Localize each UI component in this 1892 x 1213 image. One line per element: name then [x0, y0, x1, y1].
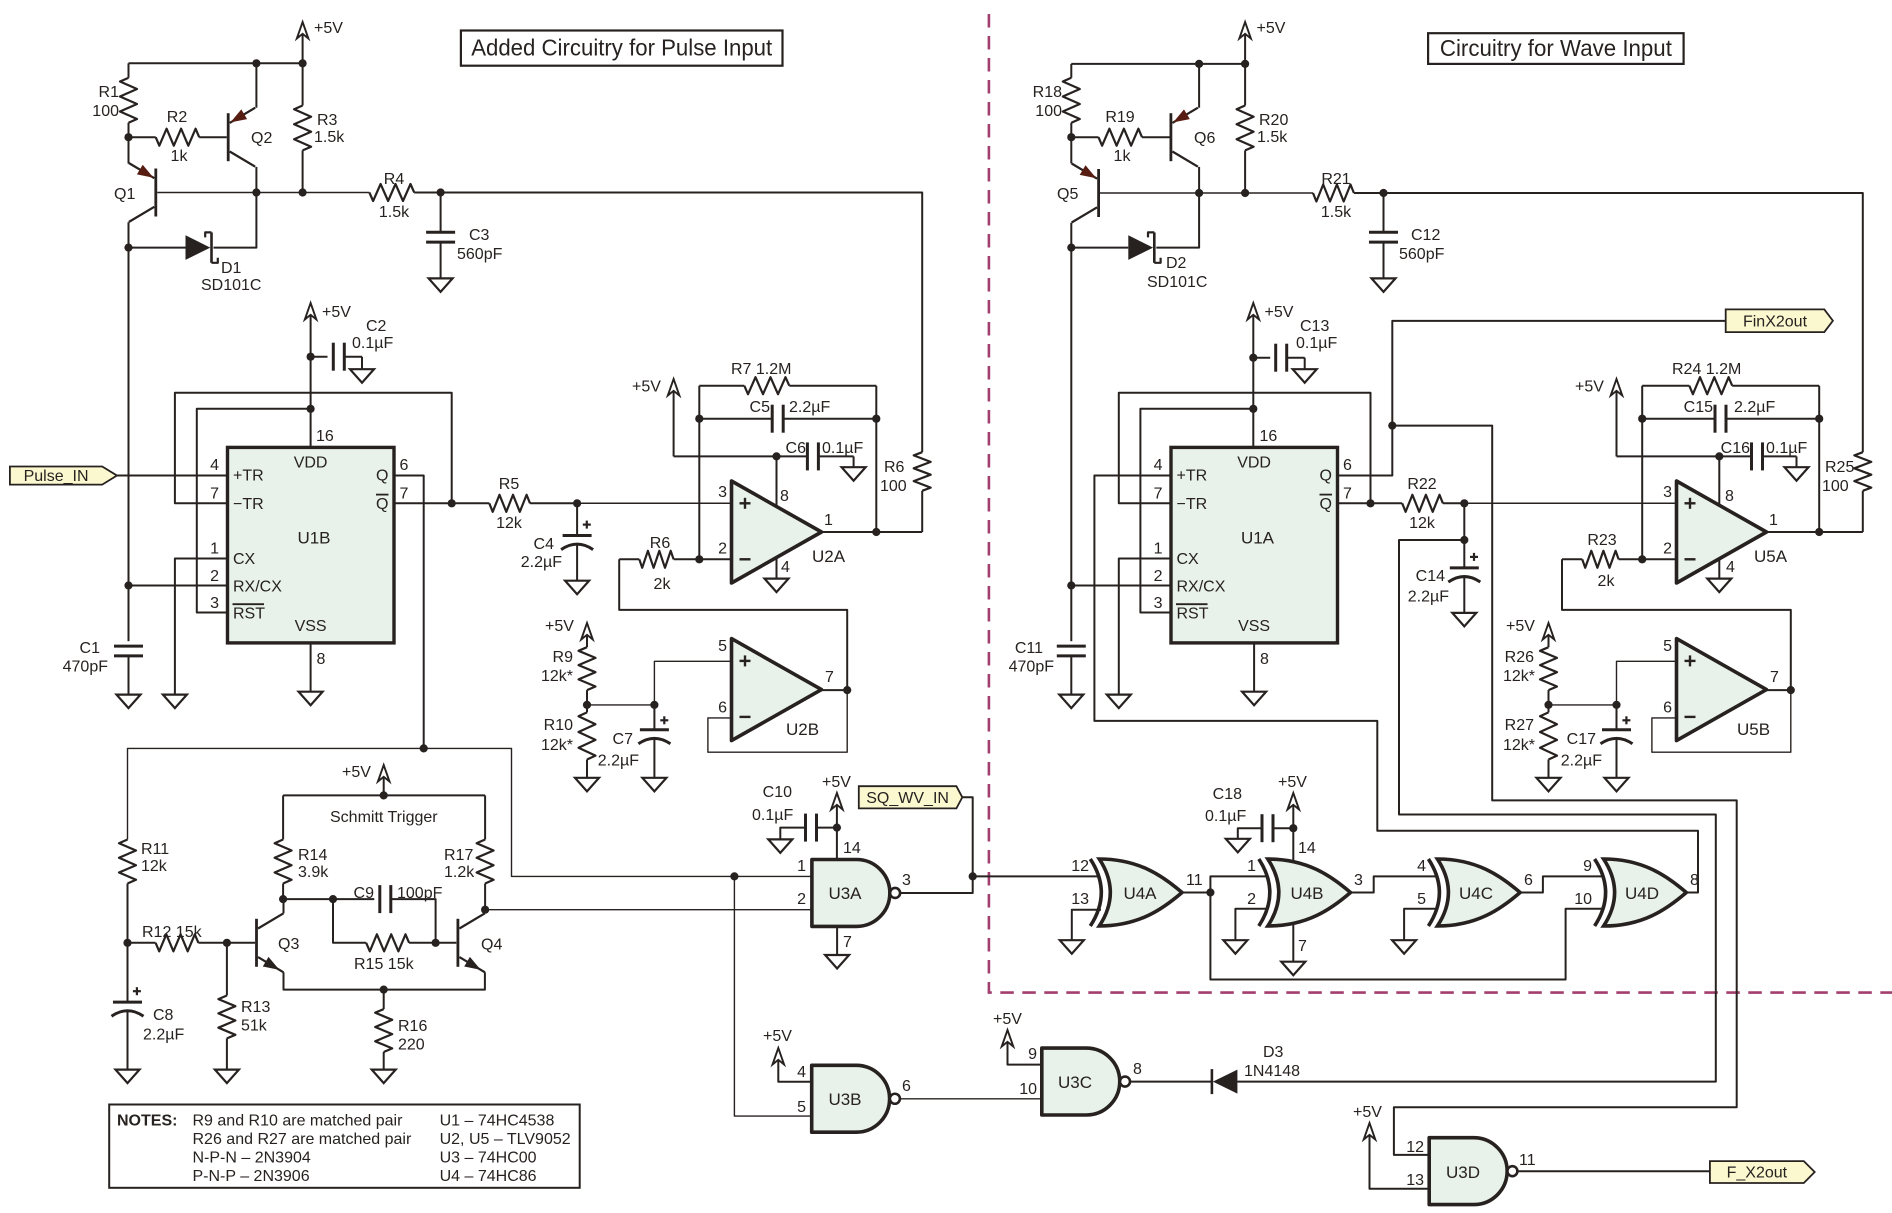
svg-text:6: 6	[400, 457, 409, 474]
wire: U3D pin 13 to +5V	[1370, 1137, 1430, 1189]
svg-text:R23: R23	[1587, 532, 1616, 549]
node: pin8 junction U5A	[1715, 452, 1723, 460]
resistor R7 1.2M feedback	[699, 385, 744, 387]
resistor R6 2k to U2A inverting input	[619, 558, 639, 560]
svg-text:R11: R11	[141, 841, 169, 858]
svg-text:N-P-N – 2N3904: N-P-N – 2N3904	[193, 1150, 311, 1167]
svg-text:R20: R20	[1259, 112, 1288, 129]
ground below R16	[372, 1070, 396, 1084]
svg-text:7: 7	[825, 669, 834, 686]
ground at C6	[842, 467, 866, 481]
svg-text:R2: R2	[167, 109, 188, 126]
node: Q2 emitter to +5V rail	[252, 59, 260, 67]
capacitor C15 2.2uF	[1642, 418, 1715, 420]
svg-text:VDD: VDD	[294, 455, 328, 472]
svg-text:100: 100	[92, 103, 119, 120]
svg-text:C16: C16	[1721, 440, 1750, 457]
wire: Q pin 6 jog to FinX2out junction	[1338, 426, 1393, 476]
wire: U2A pin 8 stub	[776, 456, 778, 507]
svg-text:0.1µF: 0.1µF	[352, 335, 393, 352]
svg-text:U3D: U3D	[1446, 1163, 1480, 1182]
svg-text:1: 1	[1769, 512, 1778, 529]
svg-text:1.5k: 1.5k	[314, 129, 345, 146]
node: U4A output junction	[1206, 888, 1214, 896]
svg-text:11: 11	[1186, 872, 1203, 889]
svg-text:+5V: +5V	[342, 764, 371, 781]
svg-text:470pF: 470pF	[1009, 659, 1055, 676]
node: R20 bottom on rail	[1241, 189, 1249, 197]
op-amp U2A	[732, 481, 822, 583]
node: R18 bottom / R19 / Q5 emitter	[1067, 133, 1075, 141]
svg-text:3: 3	[210, 595, 219, 612]
svg-text:1: 1	[824, 512, 833, 529]
svg-text:9: 9	[1028, 1046, 1037, 1063]
capacitor C12 560pF	[1383, 193, 1385, 232]
capacitor C3 560pF	[440, 193, 442, 233]
svg-text:6: 6	[718, 700, 727, 717]
resistor R17 1.2k	[477, 840, 494, 884]
wire: Schmitt +5V rail	[283, 794, 485, 796]
node: U2B output junction	[843, 686, 851, 694]
svg-text:R10: R10	[544, 717, 573, 734]
svg-text:+5V: +5V	[1506, 618, 1535, 635]
svg-text:3: 3	[718, 484, 727, 501]
node: R16 on emitter rail	[380, 986, 388, 994]
ground at U4C pin 5	[1392, 940, 1416, 954]
wire: D2 anode	[1071, 247, 1128, 249]
ground at C13	[1293, 369, 1317, 383]
svg-text:U4C: U4C	[1459, 884, 1493, 903]
svg-text:2: 2	[1154, 568, 1163, 585]
svg-text:R19: R19	[1105, 109, 1134, 126]
nand gate U3D	[1429, 1138, 1507, 1205]
svg-text:U1 – 74HC4538: U1 – 74HC4538	[440, 1113, 555, 1130]
notes box	[109, 1105, 580, 1188]
wire: R6-2k to U2B output loop	[619, 559, 847, 690]
node: FinX2out junction	[1388, 422, 1396, 430]
wire: long vertical Q5 emitter to RX/CX	[1070, 248, 1072, 586]
svg-text:100: 100	[1822, 478, 1849, 495]
svg-text:CX: CX	[233, 551, 256, 568]
svg-text:Q: Q	[376, 468, 388, 485]
wire: U5A pin 8 stub	[1718, 456, 1720, 507]
resistor R2	[129, 136, 156, 138]
diode D3 1N4148	[1211, 1069, 1214, 1094]
svg-text:8: 8	[1133, 1061, 1142, 1078]
svg-text:C17: C17	[1567, 731, 1596, 748]
node: R12 / Q3 base / R13	[223, 939, 231, 947]
svg-text:SQ_WV_IN: SQ_WV_IN	[866, 790, 949, 807]
wire: U2B output	[822, 689, 848, 691]
node: +5V on Schmitt rail	[380, 791, 388, 799]
svg-text:R12 15k: R12 15k	[142, 924, 203, 941]
svg-text:+5V: +5V	[822, 774, 851, 791]
svg-text:U3C: U3C	[1058, 1073, 1092, 1092]
svg-text:C13: C13	[1300, 318, 1329, 335]
op-amp U5B	[1677, 639, 1767, 741]
xor gate U4A	[1099, 859, 1182, 926]
svg-text:Q2: Q2	[251, 130, 272, 147]
svg-text:U4B: U4B	[1290, 884, 1323, 903]
wire: base rail Q5-Q6-R20-R21	[1100, 192, 1313, 194]
node: C5 right junction	[872, 415, 880, 423]
ground at CX	[163, 695, 187, 709]
svg-text:R9 and R10 are matched pair: R9 and R10 are matched pair	[193, 1113, 404, 1130]
svg-text:14: 14	[1298, 840, 1316, 857]
svg-text:U1A: U1A	[1241, 529, 1275, 548]
svg-text:Q: Q	[1320, 496, 1332, 513]
svg-text:5: 5	[718, 638, 727, 655]
wire: U3A pin 7 stub	[836, 926, 838, 955]
svg-text:1k: 1k	[171, 148, 189, 165]
svg-text:C1: C1	[80, 640, 101, 657]
svg-text:+TR: +TR	[233, 468, 264, 485]
svg-text:+5V: +5V	[322, 304, 351, 321]
svg-text:+5V: +5V	[1278, 774, 1307, 791]
resistor R4	[369, 184, 414, 201]
node: C2 junction on VDD line	[307, 353, 315, 361]
wire: VSS pin 8 stub	[310, 643, 312, 692]
svg-text:C4: C4	[534, 536, 555, 553]
node: R15 / C9 / Q4 base	[432, 939, 440, 947]
wire: node to Q5 emitter	[1070, 137, 1072, 163]
wire: U4A out crossover to U4D pin 10	[1210, 893, 1602, 980]
capacitor C2 0.1uF	[311, 356, 328, 358]
+5V symbol at U3D	[1364, 1123, 1376, 1140]
wire: U2A output	[822, 531, 923, 533]
transistor Q2 (PNP)	[227, 113, 230, 161]
svg-text:0.1µF: 0.1µF	[1766, 440, 1807, 457]
svg-text:R3: R3	[317, 112, 338, 129]
resistor R9 12k*	[579, 647, 596, 690]
svg-text:+5V: +5V	[763, 1028, 792, 1045]
ground below C3	[429, 278, 453, 292]
svg-text:3: 3	[1154, 595, 1163, 612]
svg-text:RX/CX: RX/CX	[233, 579, 282, 596]
svg-text:C6: C6	[786, 440, 807, 457]
svg-text:R14: R14	[298, 847, 327, 864]
transistor Q6 (PNP)	[1170, 113, 1173, 161]
svg-text:RX/CX: RX/CX	[1177, 579, 1226, 596]
svg-text:C12: C12	[1411, 227, 1440, 244]
svg-text:4: 4	[210, 457, 219, 474]
node: C9 left / R15 branch	[329, 895, 337, 903]
svg-text:2: 2	[210, 568, 219, 585]
wire: U3A output to SQ_WV_IN and U4A	[900, 876, 973, 893]
resistor R3	[302, 63, 304, 105]
svg-text:R16: R16	[398, 1018, 427, 1035]
node: C15 left junction	[1638, 415, 1646, 423]
node: C15 right junction	[1815, 415, 1823, 423]
svg-text:0.1µF: 0.1µF	[1205, 808, 1246, 825]
resistor R21 1.5k	[1313, 185, 1354, 202]
svg-text:6: 6	[1524, 872, 1533, 889]
resistor R11 12k	[119, 840, 136, 884]
wire: C9 right down to R15/Q4 node	[391, 899, 436, 943]
xor gate U4D	[1604, 859, 1687, 926]
ground at U3A pin 7	[825, 955, 849, 969]
node: R26/R27 junction	[1544, 701, 1552, 709]
xor gate U4B	[1268, 859, 1351, 926]
wire: RST tie-high loop U1A	[1140, 409, 1253, 613]
svg-text:+5V: +5V	[1265, 304, 1294, 321]
svg-text:U2A: U2A	[812, 547, 846, 566]
capacitor C14 2.2uF (polarized)	[1463, 540, 1465, 568]
svg-text:5: 5	[1663, 638, 1672, 655]
node: RST loop junction on VDD line U1A	[1249, 405, 1257, 413]
svg-text:U3B: U3B	[828, 1090, 861, 1109]
node: SQ_WV_IN junction	[969, 872, 977, 880]
svg-text:R15 15k: R15 15k	[354, 956, 415, 973]
resistor R16 220	[383, 990, 385, 1010]
transistor Q3 (NPN)	[255, 919, 258, 967]
node: Q4 collector output	[481, 906, 489, 914]
svg-text:Q: Q	[376, 496, 388, 513]
svg-text:R4: R4	[384, 171, 405, 188]
svg-text:100: 100	[1035, 103, 1062, 120]
ground at U4B pin 2	[1223, 940, 1247, 954]
resistor R26 12k*	[1540, 647, 1557, 690]
wire: U3D output to F_X2out	[1517, 1170, 1710, 1172]
wire: Q6 collector down to rail	[1198, 167, 1200, 193]
ground below C17	[1605, 778, 1629, 792]
wire: +5V rail to U5A pin 8 and C16	[1617, 455, 1752, 457]
svg-text:16: 16	[1260, 428, 1278, 445]
svg-text:C7: C7	[613, 731, 634, 748]
svg-text:8: 8	[780, 488, 789, 505]
wire: C9 link from Q3 collector node	[283, 898, 374, 900]
wire: U4A pin 13 to ground	[1072, 910, 1101, 940]
svg-text:R27: R27	[1505, 717, 1534, 734]
svg-text:7: 7	[210, 486, 219, 503]
wire: R7/C5 left leg to pin 2	[698, 386, 700, 560]
svg-text:3: 3	[1354, 872, 1363, 889]
node: Q6 collector on rail	[1195, 189, 1203, 197]
svg-text:Q5: Q5	[1057, 186, 1078, 203]
svg-text:12k*: 12k*	[1503, 737, 1535, 754]
capacitor C11 470pF	[1070, 586, 1072, 642]
svg-text:560pF: 560pF	[457, 246, 503, 263]
svg-text:C15: C15	[1684, 399, 1713, 416]
svg-text:220: 220	[398, 1037, 425, 1054]
wire: VDD vertical U1A	[1252, 358, 1254, 448]
ground at U4B pin 7	[1281, 962, 1305, 976]
node: R22 / C14 junction	[1460, 499, 1468, 507]
capacitor C6 0.1uF	[806, 442, 809, 470]
svg-text:6: 6	[1663, 700, 1672, 717]
wire: node to Q1 emitter	[128, 137, 130, 163]
node: pin 2 junction U5A	[1638, 555, 1646, 563]
wire: U4B output to U4C pin 4	[1351, 876, 1437, 892]
wire: U4B pin 2 to ground	[1235, 909, 1266, 941]
wire: -TR to Qbar feedback loop	[175, 393, 452, 504]
ground below C1	[117, 695, 141, 709]
wire: Schmitt input rail from R11 to U3A pin 1	[128, 748, 812, 876]
svg-text:U2, U5 – TLV9052: U2, U5 – TLV9052	[440, 1131, 571, 1148]
wire: U3B output to U3C pin 10	[900, 1098, 1042, 1100]
svg-text:R17: R17	[444, 847, 473, 864]
wire: Q3 collector to R14 node	[283, 899, 285, 913]
node: R3 top / +5V	[299, 59, 307, 67]
svg-text:10: 10	[1019, 1081, 1037, 1098]
node: R5 / C4 junction	[573, 499, 581, 507]
resistor R23 2k to U5A inverting input	[1562, 558, 1582, 560]
wire: R15 left leg	[333, 899, 366, 943]
svg-text:7: 7	[1298, 938, 1307, 955]
svg-text:11: 11	[1519, 1152, 1536, 1169]
svg-text:U5A: U5A	[1754, 547, 1788, 566]
svg-text:Added Circuitry for Pulse Inpu: Added Circuitry for Pulse Input	[471, 35, 772, 61]
svg-text:2.2µF: 2.2µF	[1408, 589, 1449, 606]
capacitor C8 2.2uF (polarized)	[127, 943, 129, 1002]
svg-text:Q: Q	[1320, 468, 1332, 485]
wire: pin 2 input	[699, 558, 731, 560]
ground below R27	[1537, 778, 1561, 792]
+5V symbol at U4B	[1288, 793, 1300, 810]
+5V symbol at U3B	[773, 1048, 785, 1065]
+5V symbol at U3C	[1002, 1030, 1014, 1047]
wire: Qbar pin 7 output to R22	[1338, 502, 1403, 504]
svg-text:1: 1	[797, 858, 806, 875]
node: C10 junction on pin14	[833, 824, 841, 832]
ground at U5A pin 4	[1707, 579, 1731, 593]
node: R3 bottom on rail	[299, 188, 307, 196]
resistor R10 12k*	[586, 705, 588, 713]
svg-text:Q1: Q1	[114, 186, 135, 203]
node: output / feedback junction	[872, 528, 880, 536]
node: Q5 collector / D2 anode / long vertical	[1067, 244, 1075, 252]
svg-text:1: 1	[1154, 541, 1163, 558]
svg-text:P-N-P – 2N3906: P-N-P – 2N3906	[193, 1168, 310, 1185]
svg-text:+TR: +TR	[1177, 468, 1208, 485]
svg-text:7: 7	[843, 934, 852, 951]
+5V symbol at U5A	[1611, 379, 1623, 396]
wire: U3B pin 4 to +5V	[778, 1062, 811, 1082]
wire: Q4 collector to R17 node	[484, 910, 486, 914]
ground below C12	[1372, 278, 1396, 292]
nand gate U3B	[812, 1065, 890, 1132]
ground at C16	[1785, 467, 1809, 481]
resistor R20 1.5k	[1244, 64, 1246, 106]
flag F_X2out	[1710, 1161, 1815, 1183]
wire: Q2 emitter to +5V rail	[255, 63, 257, 107]
wire: U3A pin1 branch down to U3B pin 5	[734, 876, 811, 1116]
node: Q6 emitter to +5V rail	[1195, 60, 1203, 68]
capacitor C16 0.1uF	[1750, 442, 1753, 470]
svg-text:2k: 2k	[654, 576, 672, 593]
node: C13 junction on VDD line	[1249, 354, 1257, 362]
node: U5B output junction	[1787, 686, 1795, 694]
node: Q1 collector / D1 anode / long vertical	[124, 244, 132, 252]
svg-text:D1: D1	[221, 260, 242, 277]
svg-text:U2B: U2B	[786, 720, 819, 739]
svg-text:0.1µF: 0.1µF	[822, 440, 863, 457]
ground below C7	[642, 778, 666, 792]
resistor R6 100 (top right)	[914, 452, 931, 491]
capacitor C7 2.2uF (polarized)	[653, 705, 655, 730]
ground below R10	[575, 778, 599, 792]
svg-text:SD101C: SD101C	[1147, 274, 1207, 291]
wire: RX/CX pin 2 to C1 node	[129, 585, 228, 587]
wire: Q2 collector down to rail	[255, 167, 257, 193]
svg-text:6: 6	[1343, 457, 1352, 474]
node: output / feedback junction U5A	[1815, 528, 1823, 536]
svg-text:6: 6	[902, 1078, 911, 1095]
ground below C14	[1452, 613, 1476, 627]
IC U1B (74HC4538 half)	[228, 447, 395, 643]
wire: U4B pin 7 stub	[1292, 925, 1294, 962]
svg-text:12k: 12k	[1409, 515, 1436, 532]
wire: Q5 collector down to D2 node	[1070, 223, 1072, 248]
ground at C2	[350, 369, 374, 383]
svg-text:R6: R6	[650, 535, 671, 552]
wire: rail drops to R14 and R17	[282, 795, 284, 839]
svg-text:U5B: U5B	[1737, 720, 1770, 739]
wire: divider to C7 node	[587, 704, 654, 706]
svg-text:4: 4	[1726, 559, 1735, 576]
ground below C11	[1059, 695, 1083, 709]
resistor R1	[128, 63, 130, 78]
svg-text:D2: D2	[1166, 255, 1187, 272]
resistor R25 100	[1854, 452, 1871, 491]
svg-text:2.2µF: 2.2µF	[1561, 753, 1602, 770]
diode D1 SD101C (schottky)	[186, 235, 211, 260]
node: RX/CX / C1	[124, 581, 132, 589]
svg-text:12k: 12k	[141, 858, 168, 875]
wire: U4C output to U4D pin 9	[1520, 876, 1603, 892]
svg-text:VSS: VSS	[295, 618, 327, 635]
+5V symbol at C13	[1248, 303, 1260, 320]
flag FinX2out	[1726, 309, 1833, 332]
svg-text:13: 13	[1406, 1172, 1424, 1189]
svg-text:12k*: 12k*	[541, 737, 573, 754]
svg-text:12: 12	[1071, 858, 1089, 875]
capacitor C10 0.1uF	[817, 827, 837, 829]
node: pin8 junction	[772, 452, 780, 460]
transistor Q4 (NPN)	[456, 919, 459, 967]
wire: U5B unity feedback loop	[1652, 690, 1791, 752]
wire: CX pin 1 to ground	[175, 559, 228, 695]
resistor R27 12k*	[1548, 705, 1550, 713]
svg-text:U1B: U1B	[297, 529, 330, 548]
wire: R23 to U5B output loop	[1562, 559, 1791, 690]
node: RX/CX / C11	[1067, 581, 1075, 589]
svg-text:R24 1.2M: R24 1.2M	[1672, 361, 1741, 378]
node: Q line joins Schmitt rail	[420, 744, 428, 752]
wire: long top wire R4 to R6-100	[441, 193, 923, 453]
node: Qbar / -TR loop junction	[448, 499, 456, 507]
+5V symbol at C2	[305, 303, 317, 320]
resistor R5 12k	[489, 495, 530, 512]
+5V symbol at R9	[581, 623, 593, 640]
wire: divider to C17 node	[1549, 704, 1617, 706]
wire: long vertical Q1 emitter to RX/CX	[128, 248, 130, 586]
wire: U3C pin 9 to +5V	[1008, 1044, 1042, 1065]
svg-text:R18: R18	[1033, 84, 1062, 101]
svg-text:−TR: −TR	[233, 496, 264, 513]
svg-text:Q3: Q3	[278, 936, 299, 953]
svg-text:14: 14	[843, 840, 861, 857]
svg-text:VDD: VDD	[1237, 455, 1271, 472]
svg-text:8: 8	[1725, 488, 1734, 505]
wire: R24/C15 left leg to pin 2	[1641, 386, 1643, 560]
capacitor C1 470pF	[128, 586, 130, 642]
svg-text:R6: R6	[884, 459, 905, 476]
svg-text:C14: C14	[1416, 568, 1445, 585]
wire: R22 junction to U5A + input	[1464, 502, 1676, 504]
node: C17 junction	[1612, 701, 1620, 709]
svg-text:RST: RST	[233, 606, 265, 623]
